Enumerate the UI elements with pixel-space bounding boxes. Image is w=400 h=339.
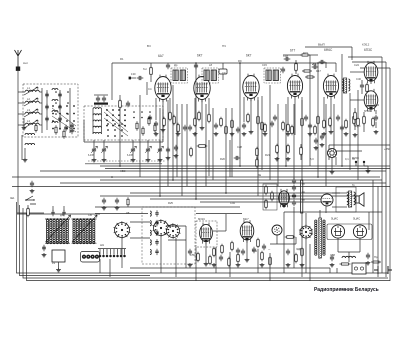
osc coil stack (93, 108, 101, 109)
wire anode bus top (112, 62, 336, 64)
wire drop z1 (208, 140, 210, 176)
resistor R24 (301, 119, 304, 126)
svg-text:5Ц4С: 5Ц4С (354, 124, 361, 128)
wire drop 25 (333, 104, 335, 150)
antenna connector X1 (16, 67, 20, 71)
capacitor Cb1 (188, 251, 192, 253)
svg-text:R1: R1 (120, 57, 124, 61)
capacitor C eye (314, 140, 318, 142)
resistor R16 horizontal (304, 70, 310, 72)
resistor Rb11 (295, 255, 298, 262)
rectifier tube V13 (331, 225, 344, 238)
resistor R6 (119, 101, 122, 108)
left cluster resistor a (55, 127, 57, 133)
wire drop 11 (212, 108, 214, 180)
svg-text:R25: R25 (168, 201, 173, 205)
box caps bottom (64, 127, 68, 129)
wire bottom bus 1 (130, 267, 330, 269)
svg-text:R44: R44 (252, 249, 257, 253)
wire drop 7 (181, 104, 183, 196)
wire out-top (348, 56, 382, 58)
wire bus B11 (200, 201, 322, 203)
dashed align line (88, 160, 165, 162)
resistor R23 (287, 125, 290, 132)
wire gang bus (85, 163, 162, 165)
padding capacitor C70 (92, 149, 96, 151)
resistor Rb5 (228, 259, 231, 266)
capacitor C43 (304, 117, 308, 119)
wire drop 1 (139, 95, 141, 177)
coil bank B (72, 218, 97, 220)
ground g7 (230, 132, 235, 136)
capacitor C37 (174, 147, 178, 149)
wire drop 16 (261, 96, 263, 170)
resistor R24 (271, 193, 274, 200)
resistor R19 horizontal (199, 145, 206, 148)
svg-text:130: 130 (131, 72, 136, 76)
inner coil column (52, 89, 58, 91)
switch contact fan (106, 109, 108, 111)
capacitor C51 (262, 246, 266, 248)
capacitor C13 (126, 103, 130, 105)
ground g4 (176, 132, 181, 136)
resistor R28 (287, 146, 290, 153)
resistor Rb9 (269, 258, 272, 265)
osc coil L13 (150, 240, 151, 245)
resistor R42 (291, 127, 294, 134)
svg-text:6Ф6С: 6Ф6С (324, 48, 333, 52)
pickup resistor R2 (27, 209, 30, 216)
svg-text:Ш1: Ш1 (100, 243, 104, 247)
resistor R block d (154, 125, 156, 131)
capacitor C50 (236, 250, 240, 252)
svg-text:R9: R9 (238, 59, 242, 63)
capacitor C IFT1 top (166, 65, 170, 67)
trimmer capacitor C1 (45, 94, 49, 96)
wire drop 5 (172, 85, 174, 180)
left cluster resistor b (63, 131, 65, 137)
phono motor M1 (272, 225, 282, 235)
electrolytic C61 (366, 255, 370, 257)
tube V1 6А7 mixer (155, 77, 171, 100)
wire bus B7 (12, 186, 390, 188)
capacitor Cb10 (286, 251, 290, 253)
osc trimmer C31 (155, 222, 158, 223)
capacitor C padder1 (102, 200, 106, 202)
resistor R padder (127, 199, 129, 205)
wire drop 24 (325, 104, 327, 186)
resistor R11 (169, 113, 172, 120)
wire bus B8 (130, 192, 340, 194)
wire bus B10 (150, 198, 330, 200)
resistor R17 (225, 127, 228, 134)
wire drop 10 (205, 104, 207, 186)
tube V5 6Ф6С driver (323, 76, 338, 97)
resistor R30 (366, 85, 369, 92)
osc coil L12 (150, 230, 151, 235)
coil L3 (25, 112, 39, 114)
wire top-right supply (305, 46, 352, 48)
wire bank top bus (17, 213, 100, 215)
switch wafer S1b (154, 221, 169, 236)
wire drop 18 (277, 104, 279, 186)
svg-text:ЭДГ: ЭДГ (296, 247, 302, 251)
padding capacitor C71 (102, 149, 106, 151)
tube V4 6Г7 det (287, 76, 302, 97)
coil L1 (25, 90, 39, 92)
bottom verticals (99, 259, 101, 273)
svg-text:С4: С4 (148, 87, 152, 91)
resistor R21 (264, 125, 267, 132)
wire bus B9 (100, 195, 360, 197)
trimmer capacitor C6 (58, 118, 62, 120)
wire drop 26 (341, 54, 343, 166)
capacitor C40 (273, 117, 277, 119)
svg-text:L9: L9 (52, 261, 55, 265)
wire right bottom links (284, 211, 382, 213)
wire drop 3 (159, 108, 161, 196)
wire box verticals (41, 88, 43, 133)
svg-text:6-495: 6-495 (88, 155, 95, 157)
trimmer capacitor C4 (58, 94, 62, 96)
resistor Rb12 (301, 249, 304, 256)
svg-text:5Ц4С: 5Ц4С (353, 217, 360, 221)
svg-text:Зв1: Зв1 (10, 196, 15, 200)
wire return loop 4 (27, 213, 391, 281)
resistor R20 (257, 117, 260, 124)
phono pickup box (256, 185, 262, 187)
svg-text:С24: С24 (354, 63, 359, 67)
resistor R33 (173, 117, 176, 124)
capacitor C22 (270, 123, 274, 125)
ground antenna (22, 126, 27, 130)
wire block bottom (84, 141, 163, 143)
wire drop 20 (293, 104, 295, 179)
resistor R45 (287, 236, 294, 239)
capacitor C18 (286, 57, 288, 61)
capacitor group top (96, 98, 100, 100)
svg-text:6К7: 6К7 (246, 54, 252, 58)
ground g5 (193, 132, 198, 136)
tube V3 6К7 IF2 (243, 76, 259, 99)
choke Др2 (219, 69, 227, 74)
IF transformer IFT1 (173, 70, 178, 81)
interstage transformer T2 (344, 78, 347, 93)
connector X2 (81, 252, 100, 263)
svg-text:ВЧ: ВЧ (147, 44, 151, 48)
wire drop 2 (146, 82, 148, 95)
wire bus B1 (100, 165, 390, 167)
tube V9 6Е5С magic eye (327, 148, 336, 157)
resistor R15 horizontal (302, 54, 308, 56)
coil L5 (25, 133, 35, 135)
rectifier frame (327, 224, 372, 240)
node top bus (195, 62, 197, 64)
wire return loop 2 (20, 205, 151, 276)
capacitor C47 (360, 85, 364, 87)
wire drop 27 (349, 100, 351, 170)
left switch contacts (52, 105, 54, 107)
resistor R29 (300, 148, 303, 155)
resistor R27 (276, 146, 279, 153)
power transformer winding right (323, 220, 325, 222)
mains plug X3 (374, 266, 392, 274)
osc coil L14 (150, 249, 151, 254)
wire eye leads (331, 158, 333, 170)
wire drop 6 (176, 104, 178, 177)
wire wafer links (130, 221, 150, 223)
wire antenna down (17, 71, 19, 213)
osc trimmer C32 (155, 232, 158, 233)
capacitor Cb13 (241, 251, 245, 253)
ground g13 (344, 132, 349, 136)
resistor R38 (247, 115, 250, 122)
resistor R33 (363, 117, 366, 124)
svg-text:R33: R33 (374, 103, 379, 107)
capacitor C25 (308, 125, 312, 127)
svg-text:С55: С55 (190, 253, 195, 257)
ground g8 (242, 132, 247, 136)
coil L6 (25, 143, 35, 145)
trimmer capacitor C3 (45, 118, 49, 120)
resistor R31 (357, 119, 360, 126)
ground gb5 (286, 263, 291, 267)
resistor R block c (148, 118, 150, 124)
osc trimmer C30 (155, 213, 158, 214)
loudspeaker Гр1 (356, 196, 359, 203)
svg-text:6Г7: 6Г7 (290, 49, 295, 53)
padding capacitor C72 (131, 149, 135, 151)
svg-text:6И1С: 6И1С (198, 217, 205, 221)
ground out1 (353, 133, 358, 137)
bus junction dots (119, 165, 121, 167)
wire bus B5 (100, 179, 382, 181)
wire drop 9 (195, 63, 197, 199)
wire drop 19 (285, 104, 287, 166)
IF transformer IFT3 (266, 70, 271, 81)
resistor R12 (177, 125, 180, 132)
resistor R14 (194, 119, 197, 126)
left cluster cap a (70, 130, 73, 131)
svg-text:5Ц4С: 5Ц4С (331, 217, 338, 221)
capacitor Cb4 (219, 257, 223, 259)
resistor R32 (354, 113, 357, 120)
power transformer winding left (315, 220, 317, 222)
svg-text:СВ: СВ (88, 213, 92, 217)
coil L4 (25, 123, 39, 125)
ground g12 (322, 132, 327, 136)
ground g11 (308, 132, 313, 136)
jack Гн2 (363, 161, 365, 163)
electrolytic C60 (330, 257, 334, 259)
osc coil L11 (150, 221, 151, 226)
svg-text:Гет: Гет (143, 67, 148, 71)
capacitor C10 (154, 123, 158, 125)
fuse F1 (342, 263, 349, 265)
resistor R26 (317, 117, 320, 124)
band block frame (84, 106, 163, 140)
wire bus B4 (12, 176, 380, 178)
wire drop 12 (225, 108, 227, 193)
capacitor C37 (236, 129, 240, 131)
wire drop 15 (257, 100, 259, 196)
wire motor (276, 235, 278, 244)
resistor R45 (329, 119, 332, 126)
wire drop 17 (269, 85, 271, 180)
tube V10 6П6 shaded (321, 194, 333, 206)
tube V2 6К7 IF1 (194, 77, 210, 100)
svg-text:Радиоприемник Беларусь: Радиоприемник Беларусь (314, 287, 379, 293)
osc trimmer C33 (155, 242, 158, 243)
svg-text:6К7: 6К7 (197, 54, 203, 58)
resistor R44 (314, 127, 317, 134)
wire V3 leads (250, 99, 252, 130)
resistor R30 (353, 117, 356, 124)
wire drop 21 (301, 100, 303, 180)
capacitor C padder2 (115, 200, 119, 202)
svg-text:КВ: КВ (126, 211, 130, 215)
wire V4 leads (294, 99, 296, 135)
resistor Rb14 (209, 257, 212, 264)
wire V5 leads (330, 99, 332, 130)
terminal strip dots (99, 255, 102, 258)
resistor R27 (323, 121, 326, 128)
ground gb1 (188, 263, 193, 267)
wire right rail 3 (389, 68, 391, 281)
svg-text:С28: С28 (237, 145, 242, 149)
volume potentiometer R22 (301, 180, 303, 213)
padding capacitor C73 (146, 149, 150, 151)
ground gb3 (236, 263, 241, 267)
switch wafer S1a (115, 223, 130, 238)
wire drop 14 (239, 63, 241, 166)
resistor R39 (261, 123, 264, 130)
wire return loop 1 (17, 202, 389, 273)
wire drop 28 (357, 90, 359, 180)
grid cap C21 (321, 60, 323, 64)
capacitor C12 (139, 76, 141, 80)
jack Гн1 (355, 161, 357, 163)
filter choke (342, 256, 356, 258)
wire link y213 (95, 213, 148, 215)
resistor R5 (150, 68, 153, 75)
svg-text:Ант: Ант (23, 61, 29, 65)
coil L2 (25, 101, 39, 103)
svg-text:ПЧ: ПЧ (222, 44, 226, 48)
resistor Rb6 (237, 255, 240, 262)
resistor R17 horizontal (307, 76, 313, 78)
trimmer capacitor C5 (58, 106, 62, 108)
svg-text:С58: С58 (330, 253, 335, 257)
osc coil L10 (150, 211, 151, 216)
wire drop 22 (309, 55, 311, 166)
resistor R36 (220, 119, 223, 126)
svg-text:ДВ: ДВ (60, 213, 64, 217)
rectifier tube V14 (353, 225, 366, 238)
wire drop 8 (186, 104, 188, 186)
capacitor C34 (188, 127, 192, 129)
resistor R block b (142, 128, 144, 134)
mid contact dots (107, 123, 109, 125)
svg-text:Др: Др (174, 63, 178, 67)
resistor R23 (265, 187, 268, 194)
wire drop 23 (317, 63, 319, 177)
resistor R18 (231, 121, 234, 128)
resistor R42 (257, 240, 260, 247)
resistor R41 (282, 123, 285, 130)
resistor R35 (198, 113, 201, 120)
svg-text:6-495: 6-495 (127, 155, 134, 157)
capacitor C13 (183, 127, 187, 129)
capacitor C20 (281, 69, 285, 71)
svg-text:L8: L8 (209, 63, 212, 67)
ground g6 (214, 132, 219, 136)
svg-text:20в: 20в (312, 62, 317, 66)
svg-text:С44: С44 (230, 201, 235, 205)
dashed box oscillator coils (142, 207, 195, 264)
capacitor C28 (336, 117, 340, 119)
ground gb2 (212, 263, 217, 267)
wire bus B3 (40, 170, 386, 172)
svg-text:5,0: 5,0 (310, 157, 314, 161)
ground gb4 (260, 263, 265, 267)
dashed box V11 (196, 221, 217, 247)
antenna W1 (15, 50, 22, 68)
svg-text:+250: +250 (384, 147, 391, 151)
wire drop 4 (167, 100, 169, 186)
resistor R18 (190, 149, 193, 156)
wire return loop 3 (23, 208, 388, 278)
voltage selector S2 (300, 226, 312, 238)
wire output couple (350, 71, 364, 73)
resistor R29 (345, 121, 348, 128)
pickup jack switch (26, 196, 36, 204)
tube V8 6Ж8 phono amp (279, 191, 290, 205)
capacitor C38 (236, 156, 238, 160)
resistor R block a (136, 123, 138, 129)
wire bus B6 (60, 182, 386, 184)
resistor R32 (163, 119, 166, 126)
svg-text:6А7: 6А7 (158, 54, 164, 58)
wire V1 leads (162, 100, 164, 128)
wire V11 V12 leads (205, 242, 207, 262)
svg-text:Пр: Пр (374, 255, 378, 259)
wire trafo top (319, 210, 321, 218)
output transformer T3 (349, 191, 352, 207)
resistor Rb8 (261, 253, 264, 260)
svg-text:0,1: 0,1 (345, 157, 349, 161)
capacitor Cb7 (252, 249, 256, 251)
block contact dots (133, 111, 135, 113)
svg-text:АВС: АВС (120, 169, 125, 173)
tube V11 bottom left (200, 224, 213, 241)
ground g3 (154, 132, 159, 136)
svg-text:R15: R15 (303, 51, 308, 55)
svg-text:С18: С18 (283, 54, 288, 58)
wire drop z2 (229, 140, 231, 177)
resistor Rb3 (213, 249, 216, 256)
tube V6 6П3С output1 (364, 63, 378, 81)
wire rectifier leads (337, 238, 339, 252)
svg-text:R17: R17 (316, 69, 321, 73)
capacitor C36 (166, 149, 170, 151)
capacitor C46 (340, 127, 344, 129)
osc trimmer C34 (155, 251, 158, 252)
wire bus B2 (105, 168, 390, 170)
ground g9 (263, 132, 268, 136)
capacitor C19 (314, 65, 316, 69)
ground input (23, 158, 28, 162)
